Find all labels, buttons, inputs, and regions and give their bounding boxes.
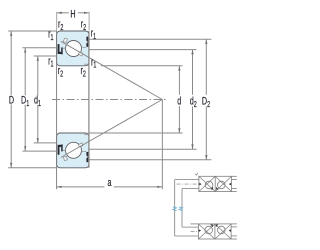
- svg-text:D: D: [9, 94, 15, 106]
- svg-text:d: d: [177, 95, 181, 107]
- svg-text:H: H: [70, 8, 75, 20]
